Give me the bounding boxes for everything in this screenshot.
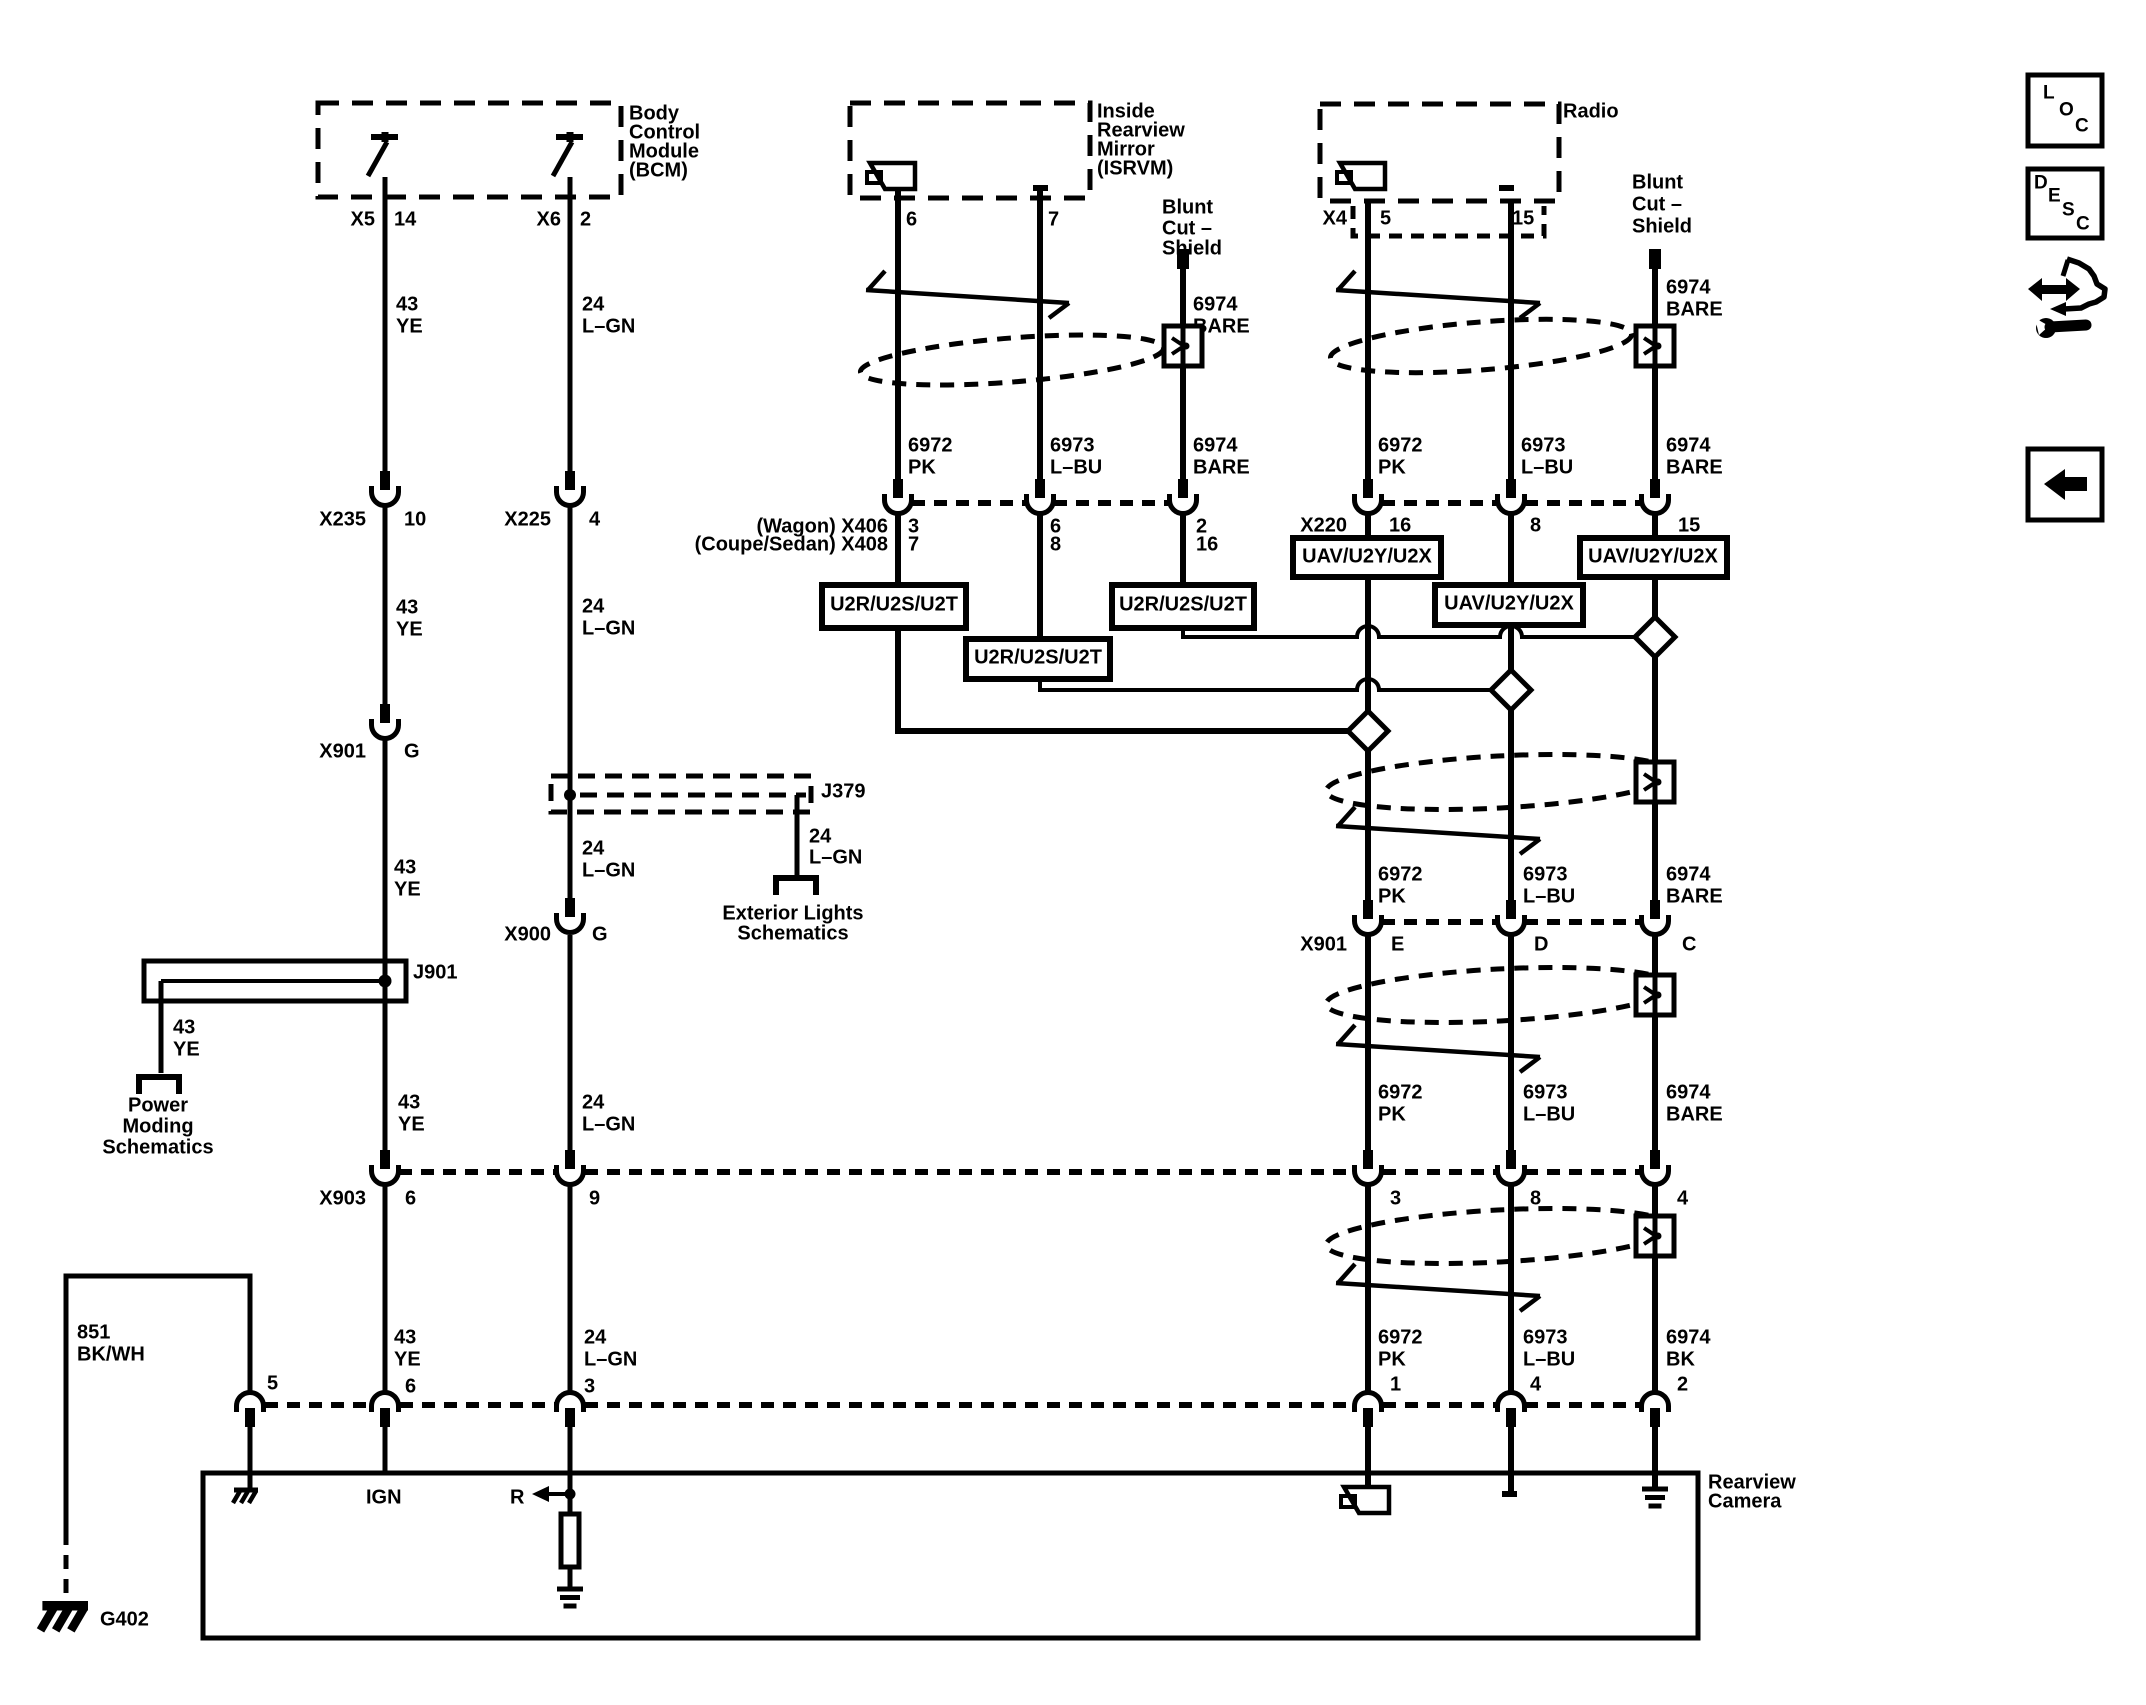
inline connector X900 pin G [504, 898, 607, 945]
wire label 43 YE (mid 1) [396, 596, 423, 640]
svg-text:PK: PK [1378, 456, 1406, 478]
wire run 6974 option merge (with hops) [1183, 626, 1637, 637]
camera internal ground (pin 5) [233, 1490, 258, 1503]
wire label 43 YE (J901 branch) [173, 1016, 200, 1060]
BCM switch contact (X5-14 output) [368, 132, 398, 176]
camera IGN terminal label [366, 1486, 402, 1508]
Radio minus terminal [1499, 185, 1514, 191]
wire label 24 L-GN (mid 2) [582, 837, 635, 881]
svg-text:E: E [1391, 933, 1404, 955]
svg-text:43: 43 [394, 856, 416, 878]
svg-text:YE: YE [398, 1113, 425, 1135]
X901 E/D/C labels [1300, 933, 1696, 955]
wire label 43 YE (mid 3) [398, 1091, 425, 1135]
twisted-pair marker (ISRVM pair) [866, 271, 1069, 318]
svg-text:1: 1 [1390, 1373, 1401, 1395]
svg-text:BARE: BARE [1666, 298, 1723, 320]
svg-text:6972: 6972 [1378, 434, 1423, 456]
ISRVM pin 6 label [906, 208, 917, 230]
svg-text:6: 6 [906, 208, 917, 230]
wire label 6974 BARE (ISRVM top) [1193, 293, 1250, 337]
shield ellipse (lower 2) [1325, 960, 1673, 1030]
svg-text:X6: X6 [537, 208, 561, 230]
svg-text:BARE: BARE [1666, 885, 1723, 907]
svg-text:5: 5 [1380, 207, 1391, 229]
wire label 851 BK/WH [77, 1321, 145, 1365]
camera R arrow [532, 1486, 576, 1502]
back-arrow box [2028, 449, 2102, 520]
wire label 6973 L-BU (Radio) [1521, 434, 1573, 478]
svg-text:4: 4 [1677, 1187, 1689, 1209]
svg-text:L–BU: L–BU [1521, 456, 1573, 478]
svg-text:Blunt: Blunt [1162, 196, 1213, 218]
wire label 6974 BARE (Radio top) [1666, 276, 1723, 320]
option box U2R/U2S/U2T (wire 6972) [822, 585, 966, 628]
wire label 43 YE (bottom) [394, 1326, 421, 1370]
svg-text:L–GN: L–GN [582, 617, 635, 639]
X903 cup pin 6 [372, 1150, 399, 1185]
camera minus terminal [1502, 1491, 1517, 1497]
svg-text:UAV/U2Y/U2X: UAV/U2Y/U2X [1588, 545, 1718, 567]
svg-text:J901: J901 [413, 961, 458, 983]
ISRVM camera symbol [867, 163, 915, 189]
svg-text:Cut –: Cut – [1632, 193, 1682, 215]
wire 24 L-GN from BCM X6-2 [568, 177, 573, 1494]
ground G402 [41, 1606, 149, 1631]
Rearview Camera box [203, 1473, 1698, 1638]
shield drain box (Radio) [1636, 326, 1674, 366]
twisted-pair marker (lower 3) [1336, 1264, 1540, 1311]
vehicle-setup icon (arrows + wrench) [2028, 259, 2105, 338]
svg-text:6974: 6974 [1666, 276, 1711, 298]
svg-text:X220: X220 [1300, 514, 1347, 536]
bottom cup pin 3 [557, 1393, 584, 1428]
svg-text:G: G [404, 740, 420, 762]
svg-text:24: 24 [809, 825, 832, 847]
wire 851 BK/WH dashed tail [64, 1531, 69, 1600]
svg-text:6972: 6972 [1378, 1081, 1423, 1103]
splice J901 dot [379, 975, 392, 988]
wire 6972 PK (ISRVM) [895, 189, 901, 628]
shield drain box (ISRVM) [1164, 326, 1202, 366]
X406/X408 cup pin 3/7 [885, 479, 912, 514]
shield ellipse (lower 1) [1325, 747, 1673, 817]
svg-text:Shield: Shield [1632, 215, 1692, 237]
wire label 24 L-GN (mid 3) [582, 1091, 635, 1135]
wire 24 L-GN branch to exterior lights [795, 795, 800, 875]
svg-text:Schematics: Schematics [737, 922, 848, 944]
X220 cup pin 16 [1355, 479, 1382, 514]
svg-text:L–BU: L–BU [1523, 1348, 1575, 1370]
option box U2R/U2S/U2T (wire 6974) [1112, 585, 1254, 628]
wire run 6972 option merge [898, 628, 1350, 731]
svg-text:C: C [2075, 116, 2089, 137]
svg-text:X5: X5 [351, 208, 375, 230]
svg-text:6973: 6973 [1521, 434, 1566, 456]
svg-text:24: 24 [582, 837, 605, 859]
svg-text:BARE: BARE [1666, 1103, 1723, 1125]
connector row X901 E/D/C dashed links [1382, 919, 1640, 925]
X220 cup pin 15 [1642, 479, 1669, 514]
twisted-pair marker (lower 2) [1336, 1025, 1540, 1072]
svg-text:4: 4 [589, 508, 601, 530]
wire 6974 BARE (Radio blunt cut) [1649, 249, 1661, 1487]
svg-text:L–GN: L–GN [584, 1348, 637, 1370]
svg-text:U2R/U2S/U2T: U2R/U2S/U2T [830, 593, 958, 615]
svg-text:6974: 6974 [1666, 863, 1711, 885]
svg-text:6972: 6972 [908, 434, 953, 456]
connector X6 pin 2 labels [537, 208, 592, 230]
camera R terminal label [510, 1486, 525, 1508]
svg-text:Blunt: Blunt [1632, 171, 1683, 193]
twisted-pair marker (Radio pair) [1336, 271, 1540, 318]
bottom cup pin 6 [372, 1393, 399, 1428]
svg-text:L: L [2043, 83, 2055, 104]
bottom cup pin 4 [1498, 1393, 1525, 1428]
camera earth ground (pin 2) [1642, 1489, 1668, 1506]
wire 43 YE branch to power moding [159, 981, 164, 1073]
svg-text:BARE: BARE [1193, 456, 1250, 478]
X903 labels [319, 1187, 1689, 1209]
svg-text:BK: BK [1666, 1348, 1695, 1370]
wire label 24 L-GN (J379 branch) [809, 825, 862, 868]
svg-text:Schematics: Schematics [102, 1136, 213, 1158]
splice J379 dashed box [551, 776, 811, 812]
svg-text:C: C [2076, 214, 2090, 235]
svg-text:BK/WH: BK/WH [77, 1343, 145, 1365]
svg-text:G: G [592, 923, 608, 945]
svg-text:24: 24 [584, 1326, 607, 1348]
shield ellipse (lower 3) [1325, 1201, 1673, 1271]
wire labels 6972/6973/6974 (set B) [1378, 863, 1723, 907]
svg-text:U2R/U2S/U2T: U2R/U2S/U2T [974, 646, 1102, 668]
svg-text:24: 24 [582, 1091, 605, 1113]
BCM switch contact (X6-2 output) [553, 132, 583, 176]
svg-text:Cut –: Cut – [1162, 217, 1212, 239]
connector row X406/X408 dashed links [912, 500, 1168, 506]
bottom row pin labels [267, 1372, 1688, 1397]
option box UAV/U2Y/U2X (wire 6973) [1435, 585, 1583, 625]
svg-text:6974: 6974 [1193, 434, 1238, 456]
shield ellipse (ISRVM) [859, 326, 1166, 394]
BCM label [629, 102, 700, 181]
camera symbol (video out) [1341, 1487, 1389, 1513]
option box U2R/U2S/U2T (wire 6973) [966, 639, 1110, 679]
svg-text:16: 16 [1389, 514, 1411, 536]
ISRVM label [1097, 100, 1185, 179]
svg-text:YE: YE [394, 1348, 421, 1370]
wire 851 BK/WH feed [66, 1276, 250, 1531]
wire label 6972 PK (Radio) [1378, 434, 1423, 478]
svg-text:6972: 6972 [1378, 863, 1423, 885]
J901 label [413, 961, 458, 983]
svg-text:L–GN: L–GN [582, 315, 635, 337]
Radio connector X4 dashed outline [1353, 206, 1544, 236]
svg-text:L–BU: L–BU [1523, 885, 1575, 907]
wire label 43 YE (mid 2) [394, 856, 421, 900]
svg-text:6972: 6972 [1378, 1326, 1423, 1348]
X220 labels [1300, 514, 1700, 536]
X220 cup pin 8 [1498, 479, 1525, 514]
wire 6974 BARE (ISRVM blunt cut) [1177, 249, 1189, 628]
inline connector X225 pin 4 [504, 471, 601, 530]
splice diamond (wire 6974) [1635, 617, 1675, 657]
splice J379 dot [564, 789, 576, 801]
svg-text:6973: 6973 [1523, 863, 1568, 885]
svg-text:PK: PK [1378, 1103, 1406, 1125]
svg-text:24: 24 [582, 595, 605, 617]
option box UAV/U2Y/U2X (wire 6974) [1580, 538, 1727, 577]
shield drain box (lower 3) [1636, 1216, 1674, 1256]
svg-text:PK: PK [1378, 1348, 1406, 1370]
X406/X408 labels [695, 515, 1219, 555]
svg-text:43: 43 [396, 293, 418, 315]
ISRVM minus terminal [1033, 185, 1048, 191]
svg-text:6: 6 [405, 1187, 416, 1209]
svg-text:UAV/U2Y/U2X: UAV/U2Y/U2X [1302, 545, 1432, 567]
X903 cup pin 9 [557, 1150, 584, 1185]
Radio label [1563, 100, 1619, 122]
ISRVM pin 7 label [1048, 208, 1059, 230]
svg-text:Exterior Lights: Exterior Lights [722, 902, 863, 924]
svg-text:8: 8 [1530, 514, 1541, 536]
svg-text:Radio: Radio [1563, 100, 1619, 122]
connector row X903 dashed links [399, 1169, 1640, 1175]
wire 43 YE from BCM X5-14 [383, 177, 388, 1471]
Radio camera symbol [1337, 163, 1385, 189]
svg-text:X225: X225 [504, 508, 551, 530]
Blunt Cut Shield label (Radio) [1632, 171, 1692, 237]
svg-text:S: S [2062, 200, 2075, 221]
svg-text:UAV/U2Y/U2X: UAV/U2Y/U2X [1444, 592, 1574, 614]
Blunt Cut Shield label (ISRVM) [1162, 196, 1222, 259]
camera internal resistor [561, 1494, 579, 1587]
connector X5 pin 14 labels [351, 208, 418, 230]
svg-text:U2R/U2S/U2T: U2R/U2S/U2T [1119, 593, 1247, 615]
wire labels 6972/6973/6974 (set C) [1378, 1081, 1723, 1125]
Radio dashed box [1320, 104, 1559, 201]
svg-text:O: O [2059, 100, 2074, 121]
wire label 24 L-GN (bottom) [584, 1326, 637, 1370]
bottom cup pin 2 [1642, 1393, 1669, 1428]
X901 cup pin E [1355, 900, 1382, 935]
option box UAV/U2Y/U2X (wire 6972) [1293, 538, 1441, 577]
Inside Rearview Mirror (ISRVM) dashed box [850, 103, 1090, 198]
svg-text:43: 43 [394, 1326, 416, 1348]
Body Control Module (BCM) dashed box [318, 103, 621, 197]
LOC reference box [2028, 75, 2102, 146]
shield drain box (lower 2) [1636, 975, 1674, 1015]
svg-text:X900: X900 [504, 923, 551, 945]
X903 cup pin 3 [1355, 1150, 1382, 1185]
Rearview Camera label [1708, 1471, 1796, 1512]
svg-text:6973: 6973 [1050, 434, 1095, 456]
svg-text:6974: 6974 [1193, 293, 1238, 315]
J379 label [821, 780, 866, 802]
svg-text:4: 4 [1530, 1373, 1542, 1395]
wire label 6973 L-BU (ISRVM) [1050, 434, 1102, 478]
bottom connector row dashed links [265, 1402, 1640, 1408]
svg-text:L–GN: L–GN [582, 859, 635, 881]
svg-text:8: 8 [1530, 1187, 1541, 1209]
svg-text:43: 43 [398, 1091, 420, 1113]
wire label 24 L-GN (mid 1) [582, 595, 635, 639]
svg-text:L–BU: L–BU [1050, 456, 1102, 478]
svg-text:YE: YE [396, 315, 423, 337]
svg-text:16: 16 [1196, 533, 1218, 555]
wire labels 6972/6973/6974 (set D) [1378, 1326, 1711, 1370]
svg-text:Shield: Shield [1162, 237, 1222, 259]
wire label 43 YE (upper) [396, 293, 423, 337]
svg-text:15: 15 [1678, 514, 1700, 536]
X406/X408 cup pin 2/16 [1170, 479, 1197, 514]
svg-text:YE: YE [396, 618, 423, 640]
svg-text:L–GN: L–GN [582, 1113, 635, 1135]
svg-text:8: 8 [1050, 533, 1061, 555]
splice pack J901 box [144, 961, 406, 1001]
wire 6972 PK (Radio) [1365, 203, 1371, 1486]
bottom cup pin 1 [1355, 1393, 1382, 1428]
wire label 6974 BARE (ISRVM mid) [1193, 434, 1250, 478]
X903 cup pin 8 [1498, 1150, 1525, 1185]
svg-text:G402: G402 [100, 1608, 149, 1630]
svg-text:D: D [2034, 173, 2048, 194]
svg-text:L–BU: L–BU [1523, 1103, 1575, 1125]
wire label 24 L-GN (upper) [582, 293, 635, 337]
svg-text:X901: X901 [319, 740, 366, 762]
svg-text:6973: 6973 [1523, 1326, 1568, 1348]
svg-text:X4: X4 [1323, 207, 1348, 229]
svg-text:(ISRVM): (ISRVM) [1097, 157, 1173, 179]
svg-text:PK: PK [908, 456, 936, 478]
svg-text:2: 2 [580, 208, 591, 230]
svg-text:R: R [510, 1486, 525, 1508]
svg-text:10: 10 [404, 508, 426, 530]
X901 cup pin C [1642, 900, 1669, 935]
svg-text:(BCM): (BCM) [629, 159, 688, 181]
bottom cup pin 5 [237, 1393, 264, 1428]
svg-text:L–GN: L–GN [809, 846, 862, 868]
twisted-pair marker (lower 1) [1336, 807, 1540, 854]
svg-text:2: 2 [1677, 1373, 1688, 1395]
X903 cup pin 4 [1642, 1150, 1669, 1185]
svg-text:5: 5 [267, 1372, 278, 1394]
svg-text:3: 3 [1390, 1187, 1401, 1209]
svg-text:C: C [1682, 933, 1696, 955]
svg-text:Power: Power [128, 1094, 188, 1116]
svg-text:6973: 6973 [1523, 1081, 1568, 1103]
svg-text:E: E [2048, 186, 2061, 207]
shield ellipse (Radio) [1329, 310, 1634, 382]
svg-text:7: 7 [1048, 208, 1059, 230]
connector row X220 dashed links [1382, 500, 1640, 506]
inline connector X901 pin G [319, 704, 419, 762]
svg-text:6974: 6974 [1666, 434, 1711, 456]
svg-text:(Coupe/Sedan) X408: (Coupe/Sedan) X408 [695, 533, 888, 555]
svg-text:6: 6 [405, 1375, 416, 1397]
X406/X408 cup pin 6/8 [1027, 479, 1054, 514]
X901 cup pin D [1498, 900, 1525, 935]
svg-text:6974: 6974 [1666, 1081, 1711, 1103]
svg-text:BARE: BARE [1666, 456, 1723, 478]
wire label 6972 PK (ISRVM) [908, 434, 953, 478]
svg-text:24: 24 [582, 293, 605, 315]
svg-text:7: 7 [908, 533, 919, 555]
wire 851 pin5 tail into camera [248, 1427, 253, 1489]
wire 6973 L-BU (ISRVM) [1037, 191, 1043, 677]
svg-text:3: 3 [584, 1375, 595, 1397]
wire label 6974 BARE (Radio mid) [1666, 434, 1723, 478]
svg-text:Moding: Moding [122, 1115, 193, 1137]
shield drain box (lower 1) [1636, 762, 1674, 802]
wire run 6973 option merge (with hop) [1040, 677, 1493, 690]
camera resistor ground [557, 1589, 583, 1606]
splice diamond (wire 6973) [1491, 670, 1531, 710]
inline connector X235 pin 10 [319, 471, 426, 530]
off-page reference Power Moding Schematics [102, 1077, 213, 1158]
off-page reference Exterior Lights Schematics [722, 878, 863, 944]
svg-text:43: 43 [173, 1016, 195, 1038]
svg-text:D: D [1534, 933, 1548, 955]
svg-text:15: 15 [1512, 207, 1534, 229]
svg-text:IGN: IGN [366, 1486, 402, 1508]
svg-text:6974: 6974 [1666, 1326, 1711, 1348]
svg-text:PK: PK [1378, 885, 1406, 907]
svg-text:J379: J379 [821, 780, 866, 802]
svg-text:X903: X903 [319, 1187, 366, 1209]
svg-text:YE: YE [394, 878, 421, 900]
svg-text:X901: X901 [1300, 933, 1347, 955]
svg-text:851: 851 [77, 1321, 110, 1343]
svg-text:YE: YE [173, 1038, 200, 1060]
X4 pin labels [1323, 207, 1535, 229]
wire 6973 L-BU (Radio) [1508, 203, 1514, 1491]
svg-text:9: 9 [589, 1187, 600, 1209]
svg-text:Camera: Camera [1708, 1490, 1782, 1512]
svg-text:X235: X235 [319, 508, 366, 530]
svg-text:14: 14 [394, 208, 417, 230]
DESC reference box [2028, 169, 2102, 238]
svg-text:43: 43 [396, 596, 418, 618]
splice diamond (wire 6972) [1348, 711, 1388, 751]
